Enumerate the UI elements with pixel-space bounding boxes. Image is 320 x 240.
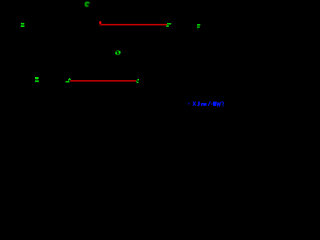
wire W2 (bottom red wire) (70, 80, 136, 82)
capacitor C2 (green, right) (197, 24, 200, 29)
transistor Q1 (green glyph at right end of top wire) (166, 23, 171, 27)
node A (red blob, left end of top wire) (99, 21, 101, 26)
junction node B (green cluster, right end of bottom wire) (136, 79, 139, 83)
wire W1 (top red wire) (101, 24, 168, 26)
ground symbol (green, left end of bottom wire) (66, 79, 71, 83)
annotation text (blue, bottom right) (188, 101, 224, 106)
component label U1 (green curl glyph, top center) (86, 2, 89, 6)
capacitor C1 (green, left) (21, 23, 25, 27)
capacitor C3 (green, bottom left) (35, 77, 39, 82)
lamp DS1 (green ring, center) (115, 51, 120, 55)
